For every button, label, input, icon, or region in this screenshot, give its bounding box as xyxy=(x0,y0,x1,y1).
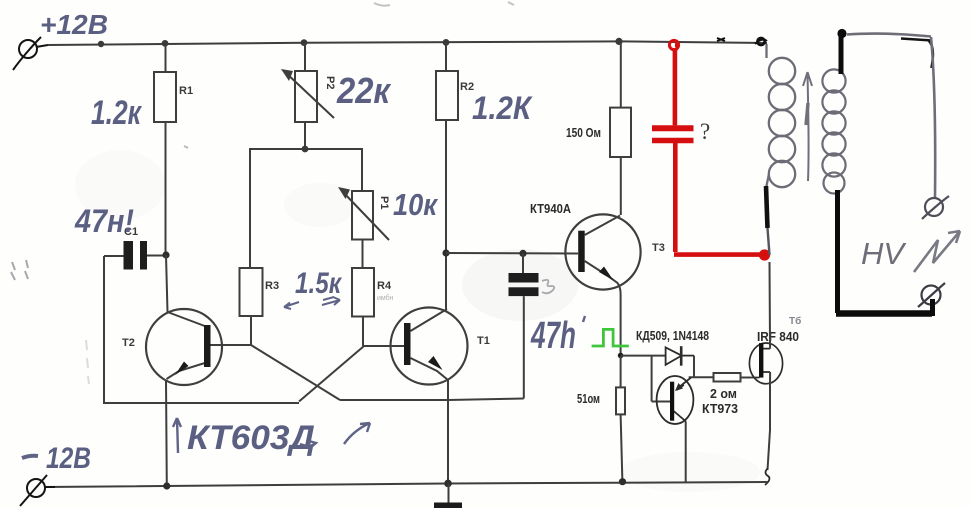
transformer core arrow xyxy=(803,72,812,181)
primary bottom lead (black then gray) xyxy=(766,186,768,228)
svg-text:51ом: 51ом xyxy=(577,391,600,406)
node: R2 / T1 collector junction xyxy=(442,249,449,256)
top rail black knot xyxy=(755,38,767,45)
resistor 51 Ом xyxy=(616,356,625,482)
node: R1-C1 junction xyxy=(162,251,169,258)
node on rail x101 xyxy=(98,41,104,47)
svg-text:Т3: Т3 xyxy=(652,242,665,254)
cross-coupling wire from T2 base down xyxy=(251,345,340,400)
resistor R3 xyxy=(240,268,263,345)
transistor КТ973 xyxy=(657,376,694,424)
MOSFET IRF840 xyxy=(749,343,782,384)
svg-text:имбн: имбн xyxy=(377,294,394,302)
node: 51ом at rail xyxy=(619,478,626,485)
svg-text:Р1: Р1 xyxy=(378,196,390,209)
node on rail x446 xyxy=(443,39,450,46)
red end blob xyxy=(759,249,770,260)
HV loop top wire xyxy=(847,34,931,37)
wire: MOSFET drain up to transformer xyxy=(769,262,772,349)
svg-text:2 ом: 2 ом xyxy=(710,386,737,401)
secondary top knot xyxy=(837,29,846,38)
secondary top lead black xyxy=(839,32,844,74)
node on rail x619 xyxy=(615,38,622,45)
resistor R4 xyxy=(352,268,374,346)
transformer primary coil xyxy=(766,44,795,188)
bottom rail xyxy=(45,482,768,487)
secondary bottom lead black xyxy=(835,190,840,313)
transformer secondary coil xyxy=(822,69,845,193)
red marker capacitor annotation xyxy=(652,40,760,254)
svg-text:47н!: 47н! xyxy=(74,203,134,239)
node on rail x165 xyxy=(162,40,169,47)
svg-text:R3: R3 xyxy=(265,280,279,292)
wire: C1 left down and across xyxy=(104,256,299,403)
svg-text:IRF 840: IRF 840 xyxy=(757,329,799,344)
svg-text:1.5к: 1.5к xyxy=(295,267,342,300)
svg-text:10к: 10к xyxy=(393,187,438,222)
top rail black tick 1 xyxy=(717,38,725,41)
resistor R1 xyxy=(154,44,176,252)
svg-text:HV: HV xyxy=(861,236,907,271)
HV terminal upper xyxy=(922,196,949,219)
transistor T2 xyxy=(146,309,251,385)
node: ground stub at rail xyxy=(444,480,452,488)
HV squiggle arrow xyxy=(914,231,960,272)
svg-text:1.2к: 1.2к xyxy=(91,94,142,132)
capacitor C1 xyxy=(124,241,134,270)
potentiometer P1 xyxy=(342,191,389,268)
wire: T2 collector up to C1 node xyxy=(166,255,168,312)
svg-text:150 Ом: 150 Ом xyxy=(566,125,601,140)
HV loop corner hook xyxy=(929,41,933,68)
HV terminal lower xyxy=(918,283,945,307)
+12V supply terminal xyxy=(13,37,48,70)
squiggle at rail connection xyxy=(765,468,769,485)
diode КД509 / 1N4148 xyxy=(666,346,694,366)
svg-text:?: ? xyxy=(700,119,710,144)
wire: diode cathode down to gate node xyxy=(689,356,714,378)
svg-text:КТ940А: КТ940А xyxy=(530,201,572,216)
node: coupling cap junction xyxy=(519,250,526,257)
resistor R2 xyxy=(436,43,458,254)
wire: collector bus to T3 base xyxy=(446,252,578,255)
resistor 2 Ом (gate) xyxy=(714,373,752,382)
transistor T1 xyxy=(364,308,468,385)
wire: T2 emitter down to rail xyxy=(165,380,168,486)
HV loop bottom wire black xyxy=(836,310,932,317)
transistor T3 xyxy=(565,214,640,355)
scan speckle marks left edge xyxy=(11,146,188,384)
svg-text:R4: R4 xyxy=(377,280,392,292)
svg-text:КТ973: КТ973 xyxy=(702,401,738,416)
svg-text:КТ603Д: КТ603Д xyxy=(187,419,315,457)
svg-text:1.2К: 1.2К xyxy=(472,90,533,126)
wire: lower coupling run to coupling cap xyxy=(340,399,524,401)
wire: КТ973 collector down to rail xyxy=(685,422,687,483)
svg-text:T2: T2 xyxy=(122,337,135,349)
-12V supply terminal xyxy=(20,475,55,506)
ground symbol xyxy=(448,484,450,504)
smudge З right of cap xyxy=(542,280,554,293)
svg-text:+12В: +12В xyxy=(40,9,108,40)
resistor 150 Ом xyxy=(610,42,631,216)
node: T2 emitter at rail xyxy=(163,482,170,489)
wire: T1 collector up to R2 node xyxy=(445,253,447,309)
wire: T1 emitter down to rail xyxy=(447,380,449,484)
node: P2 bottom junction xyxy=(302,146,309,153)
node: T3 emitter junction xyxy=(618,353,624,359)
svg-text:Р2: Р2 xyxy=(324,76,336,89)
cross-coupling wire up to T1 base xyxy=(299,346,364,402)
wire: MOSFET source down to rail xyxy=(768,372,771,470)
svg-text:КД509, 1N4148: КД509, 1N4148 xyxy=(636,328,709,343)
svg-text:22к: 22к xyxy=(336,70,391,111)
wire: diode anode down to КТ973 base xyxy=(652,356,670,402)
HV loop right wire xyxy=(931,37,935,197)
potentiometer P2 xyxy=(285,43,334,149)
+12V rail wire xyxy=(48,41,767,45)
svg-text:12В: 12В xyxy=(46,442,91,475)
node on rail x304 xyxy=(301,39,308,46)
svg-text:Тб: Тб xyxy=(789,315,801,327)
svg-text:T1: T1 xyxy=(477,335,490,347)
green pulse symbol xyxy=(592,329,629,346)
svg-text:47h: 47h xyxy=(530,315,576,357)
wire: junction to diode xyxy=(621,355,666,357)
svg-text:R1: R1 xyxy=(179,85,193,97)
wire: P2 bottom tee xyxy=(250,149,362,268)
coupling capacitor 47n xyxy=(509,273,539,283)
